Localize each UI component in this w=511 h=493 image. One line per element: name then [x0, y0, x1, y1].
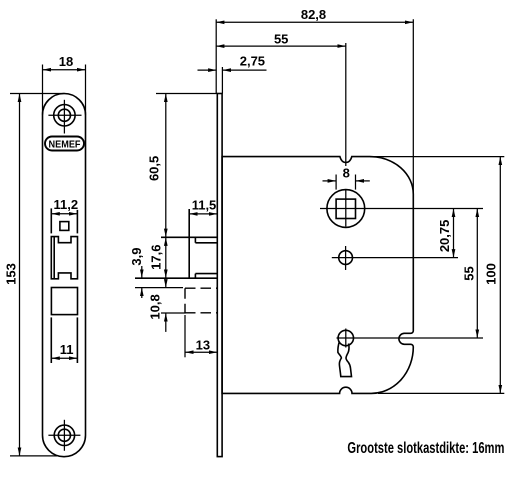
svg-text:11,5: 11,5 [192, 198, 217, 213]
svg-text:2,75: 2,75 [240, 54, 265, 69]
dimension 3,9 [129, 248, 183, 298]
dimension 100 [370, 157, 504, 394]
svg-text:55: 55 [274, 32, 288, 47]
keyhole stem [338, 342, 352, 377]
top screw crosshair [48, 100, 81, 134]
svg-text:11,2: 11,2 [54, 197, 79, 212]
svg-text:13: 13 [196, 338, 210, 353]
spindle square 8mm [336, 199, 355, 218]
deadbolt front view [51, 288, 77, 315]
faceplate front view outline [43, 93, 86, 456]
dimension 55 top [216, 32, 346, 167]
svg-text:10,8: 10,8 [148, 294, 163, 319]
bottom screw hole [54, 425, 74, 445]
svg-text:100: 100 [483, 263, 498, 285]
svg-text:60,5: 60,5 [146, 156, 161, 181]
svg-text:17,6: 17,6 [149, 245, 164, 270]
dimension 13 [185, 315, 217, 357]
dimension 18 [43, 54, 86, 115]
svg-text:18: 18 [59, 54, 73, 69]
dimension 60,5 [146, 94, 217, 238]
top screw hole [54, 105, 75, 126]
svg-text:Grootste slotkastdikte: 16mm: Grootste slotkastdikte: 16mm [347, 440, 504, 457]
spindle crosshair [320, 189, 483, 226]
spindle follower circle [327, 190, 365, 228]
dimension 11,2 [51, 197, 78, 214]
dimension 55 right [461, 209, 477, 339]
dimension 11 [51, 342, 77, 358]
svg-text:82,8: 82,8 [301, 7, 326, 22]
deadbolt side view (dashed) [185, 288, 217, 313]
fixing hole [339, 251, 353, 265]
upper latch cutout [51, 208, 77, 233]
svg-text:11: 11 [60, 342, 74, 357]
latch bolt side view [135, 209, 217, 278]
fixing hole crosshair [332, 246, 458, 270]
dimension 17,6 [149, 237, 166, 278]
bottom screw crosshair [48, 420, 80, 451]
svg-text:8: 8 [343, 166, 350, 181]
keyhole circle [338, 330, 353, 345]
latch bolt front view [51, 237, 77, 279]
dimension 11,5 [189, 198, 217, 214]
lock case outline [222, 157, 413, 394]
dimension 20,75 [437, 209, 453, 258]
dimension 2,75 [198, 54, 267, 94]
dimension 10,8 [148, 280, 186, 332]
svg-text:153: 153 [3, 263, 18, 285]
svg-text:20,75: 20,75 [437, 220, 452, 253]
svg-text:55: 55 [461, 266, 476, 280]
svg-text:3,9: 3,9 [129, 248, 144, 266]
faceplate side view [217, 94, 222, 457]
dimension 8 [323, 166, 370, 190]
dimension 82,8 [216, 7, 413, 196]
NEMEF logo [45, 137, 84, 151]
dimension 153 [3, 94, 64, 456]
keyhole crosshair [337, 329, 484, 348]
lower cutout [51, 317, 77, 363]
svg-text:NEMEF: NEMEF [49, 140, 81, 151]
